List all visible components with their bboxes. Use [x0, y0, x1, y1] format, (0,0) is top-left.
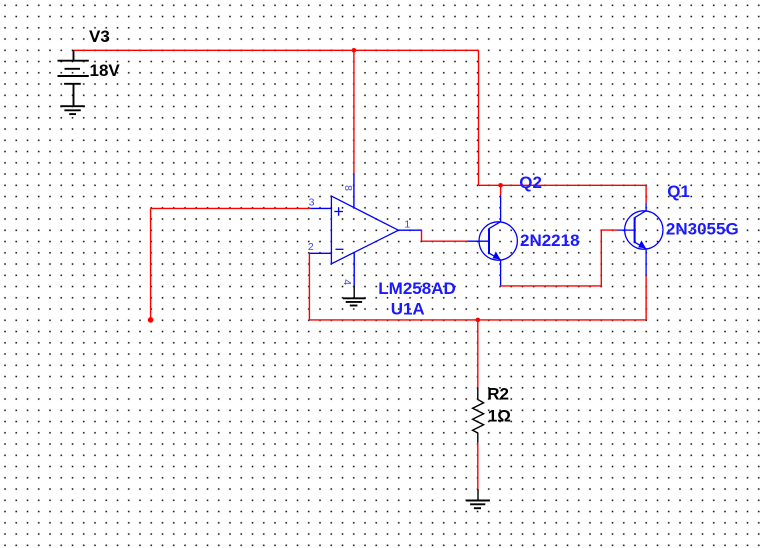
- svg-text:18V: 18V: [90, 61, 121, 80]
- svg-text:2N2218: 2N2218: [520, 231, 580, 250]
- node input endpoint: [148, 317, 154, 323]
- battery V3: [58, 50, 89, 106]
- wire: junction down to Q2 collector pin: [500, 185, 502, 195]
- transistor Q2: [467, 196, 517, 286]
- svg-text:V3: V3: [89, 27, 110, 46]
- wire: rail down to Q1 collector pin: [645, 185, 647, 202]
- ground (op-amp pin 4): [343, 298, 366, 305]
- node junction Q2 collector: [498, 183, 503, 188]
- wire: pin 2 stub: [309, 252, 331, 254]
- wire: battery top rail: [74, 49, 479, 51]
- ground (battery): [60, 106, 85, 114]
- wire: pin 8 stub: [353, 174, 355, 207]
- wire: collector rail to Q1: [479, 184, 647, 186]
- wire: R2 branch down: [477, 320, 479, 388]
- svg-text:3: 3: [309, 197, 315, 209]
- svg-text:8: 8: [342, 185, 354, 191]
- wire: output step down: [421, 230, 423, 241]
- Q1 emitter arrow: [638, 240, 646, 248]
- transistor Q1: [617, 203, 663, 276]
- wire: pin 3 stub: [310, 207, 331, 209]
- wire: Q1 emitter down: [645, 276, 647, 320]
- ground (R2): [466, 501, 490, 509]
- svg-text:1Ω: 1Ω: [488, 407, 511, 426]
- node junction R2 tap: [476, 318, 481, 323]
- wire: pin 4 stub: [353, 253, 355, 286]
- wire: Q2 emitter down rail: [501, 285, 602, 287]
- wire: top rail down to op-amp pin 8: [353, 50, 355, 174]
- svg-text:1: 1: [404, 218, 410, 230]
- op-amp U1A: [331, 196, 398, 264]
- wire: pin 2 down: [308, 253, 310, 320]
- wire: ground stub: [477, 489, 479, 500]
- wire: input to pin 3: [151, 207, 311, 209]
- wire: R2 to ground: [477, 443, 479, 489]
- wire: output to Q2 base: [422, 240, 468, 242]
- wire: pin 4 to ground: [353, 286, 355, 298]
- svg-text:U1A: U1A: [391, 299, 425, 318]
- svg-text:2N3055G: 2N3055G: [666, 220, 739, 239]
- svg-text:Q1: Q1: [667, 182, 690, 201]
- wire: feedback bottom rail: [309, 319, 646, 321]
- wire: up to Q1 base level: [600, 230, 602, 286]
- wire: input vertical: [150, 208, 152, 320]
- wire: right rail down to collector level: [478, 50, 480, 185]
- wire: pin 1 output stub: [398, 229, 421, 231]
- svg-text:R2: R2: [487, 385, 509, 404]
- svg-text:Q2: Q2: [519, 173, 542, 192]
- resistor R2: [473, 388, 484, 443]
- svg-text:LM258AD: LM258AD: [378, 279, 455, 298]
- wire: to Q1 base: [601, 229, 617, 231]
- Q2 emitter arrow: [493, 251, 501, 259]
- svg-text:2: 2: [308, 241, 314, 253]
- node junction on top rail: [352, 48, 357, 53]
- svg-text:4: 4: [341, 279, 353, 285]
